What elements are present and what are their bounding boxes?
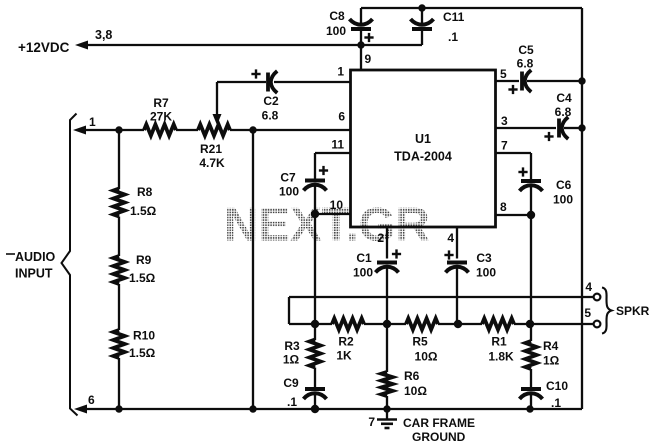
junction pin8 node (527, 211, 535, 219)
wire R8-R9 (118, 217, 120, 257)
svg-text:1Ω: 1Ω (543, 354, 560, 368)
resistor R5 (406, 318, 438, 363)
svg-text:3: 3 (501, 114, 508, 128)
capacitor C8 (326, 8, 374, 45)
svg-text:GROUND: GROUND (412, 430, 466, 444)
svg-text:SPKR: SPKR (616, 304, 650, 318)
svg-text:10Ω: 10Ω (415, 350, 438, 364)
svg-text:1: 1 (89, 115, 96, 129)
wire speaker bottom rail (289, 323, 594, 325)
svg-text:R2: R2 (338, 335, 354, 349)
svg-text:R21: R21 (200, 142, 222, 156)
capacitor C5 (508, 43, 534, 94)
svg-text:8: 8 (500, 200, 507, 214)
svg-text:100: 100 (353, 266, 373, 280)
svg-text:C5: C5 (518, 43, 534, 57)
junction pin3 rail (578, 124, 585, 131)
resistor R7 (144, 96, 176, 136)
capacitor C4 (544, 91, 572, 141)
wire audio in 1 (73, 115, 144, 135)
junction pin9 node (357, 41, 364, 48)
resistor R9 (113, 253, 155, 285)
junction rail C (454, 320, 462, 328)
wire R6 to ground (386, 396, 388, 409)
resistor R1 (482, 318, 514, 363)
wire bottom rail (74, 393, 582, 414)
svg-text:9: 9 (365, 52, 372, 66)
svg-text:4: 4 (447, 231, 454, 245)
svg-text:R5: R5 (412, 335, 428, 349)
junction bottom D (383, 405, 390, 412)
svg-text:2: 2 (377, 231, 384, 245)
svg-text:100: 100 (553, 193, 573, 207)
resistor R3 (283, 324, 321, 368)
svg-text:.1: .1 (287, 395, 297, 409)
svg-text:AUDIO: AUDIO (15, 250, 56, 264)
wire pin 9 stub (361, 45, 372, 70)
wire R7 to R21 (176, 129, 198, 131)
svg-text:C3: C3 (476, 251, 492, 265)
svg-text:5: 5 (500, 67, 507, 81)
svg-text:10: 10 (330, 198, 344, 212)
junction pin5 rail (578, 77, 585, 84)
wire C11 to C8 (361, 44, 422, 46)
svg-text:6.8: 6.8 (555, 105, 572, 119)
svg-text:7: 7 (368, 415, 375, 429)
capacitor C11 (411, 8, 465, 45)
svg-text:INPUT: INPUT (15, 267, 53, 281)
junction bottom E (526, 405, 533, 412)
svg-text:C9: C9 (283, 376, 299, 390)
junction bottom A (115, 405, 122, 412)
svg-text:R4: R4 (543, 339, 559, 353)
node +12VDC (18, 28, 112, 55)
wire right rail (581, 8, 583, 409)
wire rail bridge (288, 297, 290, 324)
svg-text:C10: C10 (546, 379, 568, 393)
wire input divider top (118, 130, 120, 189)
capacitor C7 (279, 166, 328, 214)
node SPKR terminal 5 (584, 306, 600, 327)
capacitor C9 (283, 368, 326, 410)
svg-text:4.7K: 4.7K (199, 156, 225, 170)
wire pin 2 (377, 227, 387, 259)
capacitor C2 (217, 69, 279, 122)
svg-text:C6: C6 (556, 178, 572, 192)
svg-text:C2: C2 (263, 94, 279, 108)
svg-text:C1: C1 (356, 251, 372, 265)
junction input node (115, 126, 122, 133)
capacitor C3 (444, 250, 496, 324)
node SPKR terminal 4 (585, 280, 600, 300)
junction bottom B (249, 405, 256, 412)
junction bottom C (311, 405, 319, 413)
wire +12VDC feed (75, 41, 361, 50)
node SPKR brace (602, 288, 650, 334)
svg-text:1.8K: 1.8K (488, 350, 514, 364)
junction rail B (383, 320, 391, 328)
wire speaker top rail (289, 296, 594, 298)
resistor R6 (381, 324, 427, 398)
svg-text:+12VDC: +12VDC (18, 40, 70, 55)
svg-text:10Ω: 10Ω (404, 384, 427, 398)
svg-text:1Ω: 1Ω (283, 353, 300, 367)
wire pin 1 (274, 65, 350, 83)
svg-text:R3: R3 (284, 339, 300, 353)
svg-text:C7: C7 (280, 171, 296, 185)
svg-text:100: 100 (279, 185, 299, 199)
svg-text:3,8: 3,8 (95, 28, 112, 42)
wire pin 4 (447, 227, 457, 259)
svg-text:100: 100 (476, 266, 496, 280)
svg-text:6: 6 (338, 110, 345, 124)
svg-text:7: 7 (501, 139, 508, 153)
node AUDIO INPUT bracket (6, 114, 78, 416)
svg-text:C11: C11 (443, 10, 465, 24)
svg-text:1.5Ω: 1.5Ω (129, 346, 156, 360)
op-amp U1 TDA-2004 (351, 70, 496, 227)
svg-text:NEXT.GR: NEXT.GR (224, 199, 430, 252)
svg-text:100: 100 (326, 24, 346, 38)
resistor R2 (332, 318, 364, 362)
wire pin10 column (314, 214, 316, 324)
svg-text:1.5Ω: 1.5Ω (130, 204, 157, 218)
svg-text:.1: .1 (448, 30, 458, 44)
ground CAR FRAME (368, 409, 475, 444)
svg-text:TDA-2004: TDA-2004 (394, 150, 452, 164)
svg-text:5: 5 (584, 306, 591, 320)
wire pin 10 (315, 198, 350, 214)
svg-text:R1: R1 (491, 335, 507, 349)
svg-text:1: 1 (337, 65, 344, 79)
svg-text:11: 11 (331, 138, 344, 152)
svg-text:R9: R9 (136, 253, 152, 267)
resistor R10 (113, 329, 155, 361)
wire pin 7 (495, 139, 531, 180)
wire R21 to pin 6 (230, 110, 350, 131)
wire top rail (361, 7, 582, 9)
wire feedback column (252, 130, 254, 409)
capacitor C1 (353, 249, 401, 324)
junction rail A (311, 320, 319, 328)
svg-text:6.8: 6.8 (262, 109, 279, 123)
junction feedback node (249, 126, 256, 133)
wire pin 8 (495, 200, 531, 215)
svg-text:27K: 27K (150, 110, 172, 124)
wire R9-R10 (118, 284, 120, 330)
svg-text:C4: C4 (556, 91, 572, 105)
svg-text:R7: R7 (153, 96, 169, 110)
wire pin8 column (530, 215, 532, 324)
wire pin 5 (495, 67, 579, 81)
svg-text:1K: 1K (336, 349, 352, 363)
svg-text:R8: R8 (137, 185, 153, 199)
wire C2 to R21 wiper (213, 82, 222, 125)
resistor R21 (198, 124, 230, 170)
capacitor C6 (518, 167, 573, 215)
svg-text:6: 6 (88, 393, 95, 407)
svg-text:C8: C8 (329, 9, 345, 23)
junction C11 top (418, 4, 425, 11)
svg-text:6.8: 6.8 (517, 57, 534, 71)
svg-text:4: 4 (585, 280, 592, 294)
resistor R8 (113, 185, 156, 218)
resistor R4 (525, 324, 559, 369)
svg-text:R6: R6 (404, 369, 420, 383)
junction rail D (526, 320, 534, 328)
svg-text:1.5Ω: 1.5Ω (129, 271, 156, 285)
junction pin10 node (311, 210, 319, 218)
watermark NEXT.GR (224, 199, 430, 252)
svg-text:U1: U1 (415, 132, 431, 146)
wire pin 3 (495, 114, 579, 128)
capacitor C10 (520, 369, 569, 410)
wire pin 11 (315, 138, 350, 180)
svg-text:CAR FRAME: CAR FRAME (403, 416, 475, 430)
wire R10 to bottom (118, 358, 120, 409)
svg-text:R10: R10 (133, 329, 155, 343)
